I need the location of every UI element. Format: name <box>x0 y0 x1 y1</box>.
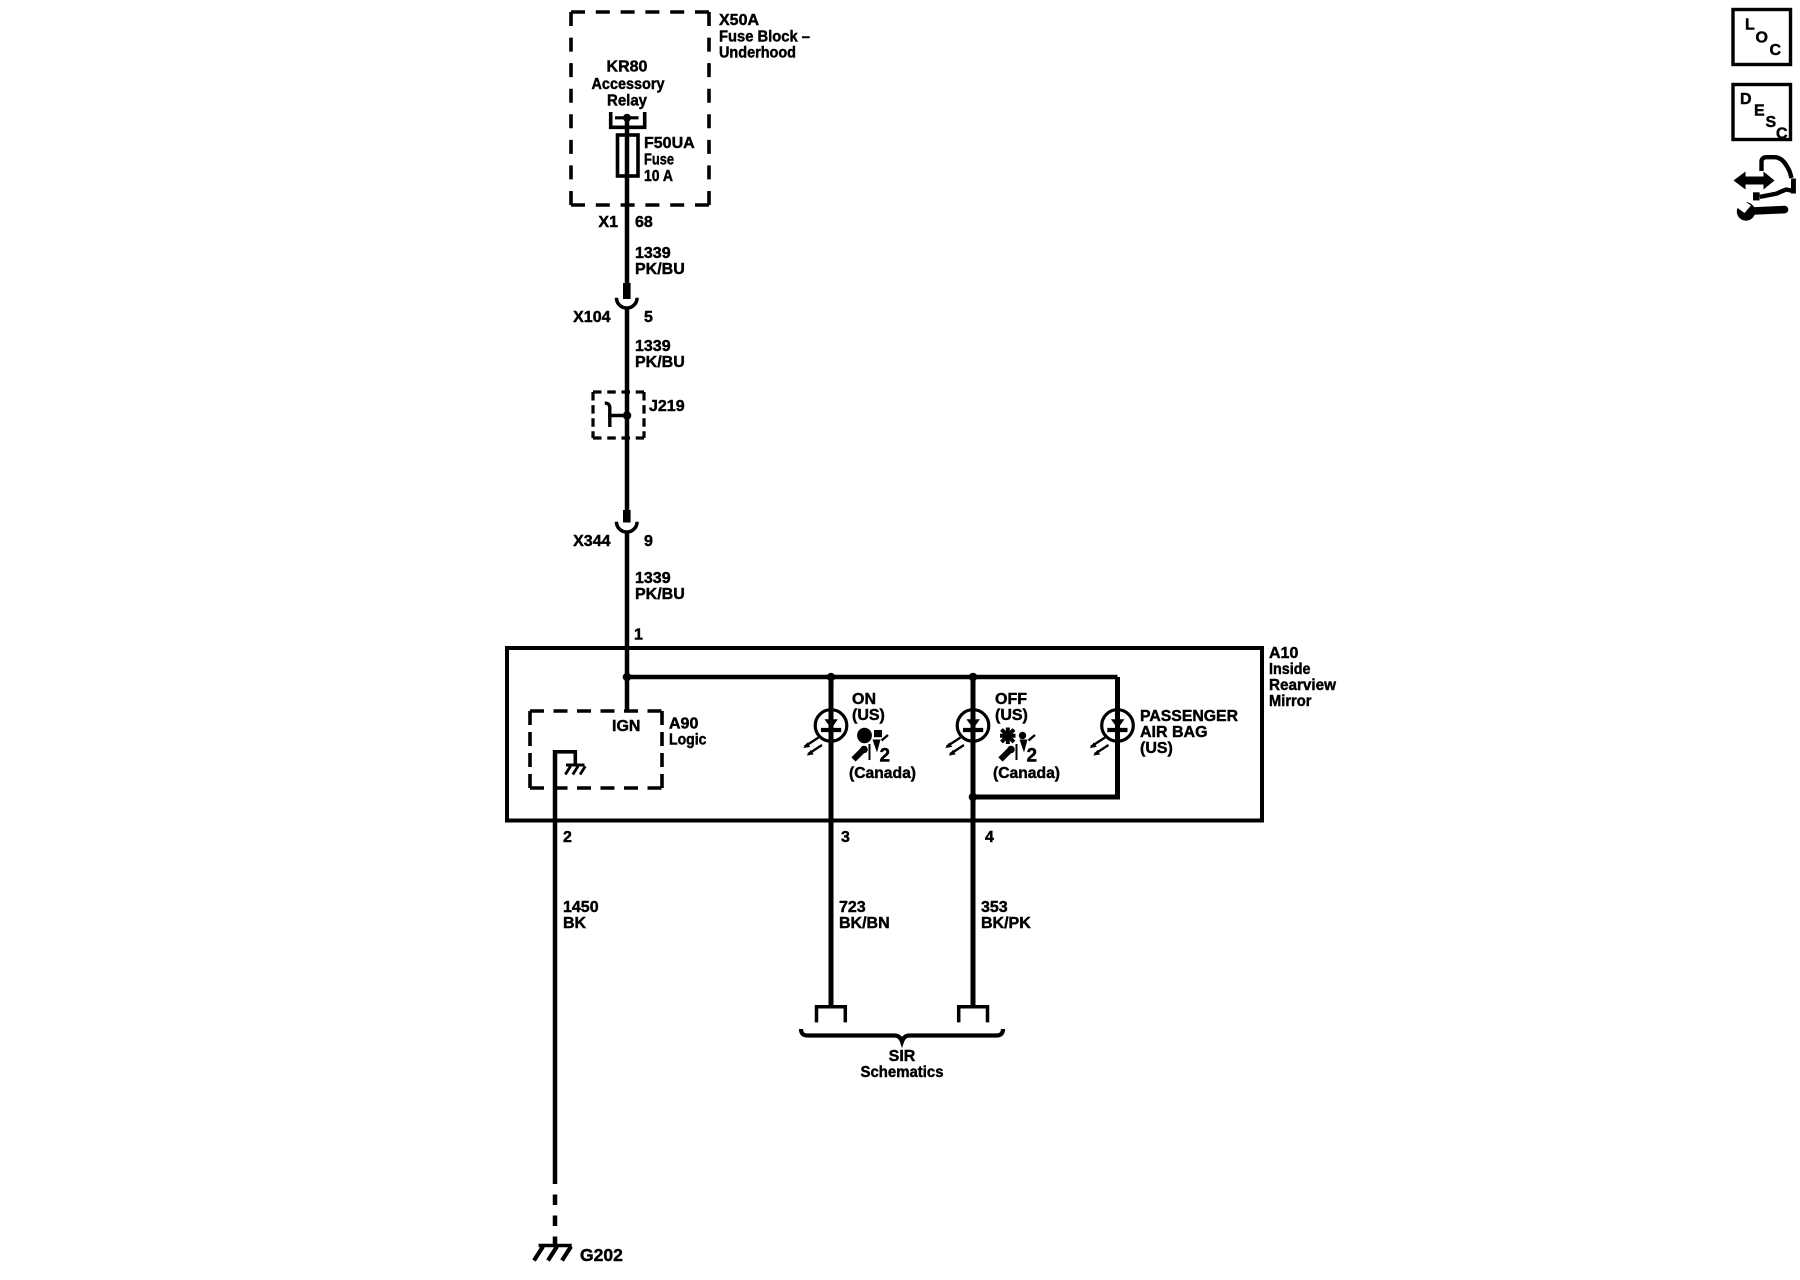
svg-text:(US): (US) <box>995 707 1028 724</box>
svg-text:E: E <box>1754 103 1765 120</box>
svg-text:Fuse: Fuse <box>644 152 674 169</box>
svg-text:5: 5 <box>644 309 653 326</box>
svg-text:X344: X344 <box>573 533 610 550</box>
svg-text:(Canada): (Canada) <box>849 765 916 782</box>
brace SIR schematics <box>801 1029 1003 1042</box>
svg-text:1339: 1339 <box>635 570 671 587</box>
A10 label <box>1269 645 1337 710</box>
node junction wire1/bus <box>623 673 632 682</box>
LED1 ON indicator <box>815 677 847 1005</box>
svg-text:723: 723 <box>839 899 866 916</box>
svg-text:D: D <box>1740 91 1752 108</box>
svg-text:KR80: KR80 <box>607 59 648 76</box>
connector X344 <box>616 510 637 532</box>
wire X104 to J219 <box>625 308 630 510</box>
pin X1 68 labels <box>598 214 652 231</box>
X104 pin 5 labels <box>573 309 653 326</box>
wire 353 BK/PK label <box>981 899 1031 932</box>
internal bus wire <box>627 675 1118 680</box>
wire 1339 PK/BU label (middle) <box>635 338 685 371</box>
svg-text:X50A: X50A <box>719 12 759 29</box>
splice J219 symbol <box>605 403 632 427</box>
dashed wire to G202 <box>553 1184 558 1246</box>
svg-text:C: C <box>1770 42 1782 59</box>
svg-text:O: O <box>1756 30 1768 47</box>
LED2 OFF indicator <box>957 677 989 1005</box>
relay KR80 contact symbol <box>611 112 645 127</box>
svg-text:BK: BK <box>563 915 587 932</box>
DESC icon box <box>1733 85 1791 143</box>
wire relay to fuse to X1 pin <box>625 118 630 283</box>
svg-text:Schematics: Schematics <box>861 1064 944 1081</box>
wire X344 to mirror box <box>625 532 630 677</box>
chassis ground symbol in A90 <box>565 765 585 775</box>
svg-text:A10: A10 <box>1269 645 1298 662</box>
KR80 relay label <box>592 59 665 110</box>
svg-text:1: 1 <box>634 627 643 644</box>
LED3 light arrows <box>1090 738 1109 756</box>
svg-text:F50UA: F50UA <box>644 135 695 152</box>
X50A label <box>719 12 810 62</box>
svg-text:IGN: IGN <box>612 718 640 735</box>
fuse F50UA symbol <box>618 135 639 176</box>
svg-text:Fuse Block –: Fuse Block – <box>719 28 810 45</box>
svg-text:PASSENGER: PASSENGER <box>1140 708 1238 725</box>
A90 label <box>669 716 707 749</box>
wire 1450 BK label <box>563 899 599 932</box>
svg-text:2: 2 <box>880 746 891 767</box>
svg-text:Underhood: Underhood <box>719 45 796 62</box>
SIR Schematics label <box>861 1048 944 1081</box>
wire 2 ground lead <box>553 750 558 1184</box>
airbag icon (ON) <box>854 728 889 760</box>
ON (US) label <box>852 691 885 724</box>
F50UA label <box>644 135 695 185</box>
svg-text:PK/BU: PK/BU <box>635 354 685 371</box>
fuse block X50A dashed box <box>571 12 709 205</box>
svg-text:Accessory: Accessory <box>592 76 665 93</box>
LOC icon box <box>1733 10 1791 65</box>
LED1 light arrows <box>803 738 822 756</box>
airbag icon (OFF) with burst <box>1000 728 1035 761</box>
navigation outline arrow icon <box>1753 157 1796 200</box>
node junction bus/LED1 <box>827 673 836 682</box>
svg-text:PK/BU: PK/BU <box>635 586 685 603</box>
svg-text:X1: X1 <box>598 214 618 231</box>
svg-text:Logic: Logic <box>669 732 707 749</box>
OFF (US) label <box>995 691 1028 724</box>
svg-text:1450: 1450 <box>563 899 599 916</box>
svg-text:2: 2 <box>563 829 572 846</box>
terminal symbol wire 4 <box>959 1007 988 1023</box>
wire 1339 PK/BU label (lower) <box>635 570 685 603</box>
svg-text:OFF: OFF <box>995 691 1027 708</box>
svg-text:Rearview: Rearview <box>1269 677 1337 694</box>
svg-text:(US): (US) <box>1140 740 1173 757</box>
A90 Logic dashed box <box>530 709 662 713</box>
connector X104 <box>616 283 637 308</box>
splice J219 dashed box <box>593 390 644 393</box>
svg-text:BK/BN: BK/BN <box>839 915 890 932</box>
A10 inside rearview mirror box <box>507 648 1262 821</box>
PASSENGER AIR BAG label <box>1140 708 1238 757</box>
internal ground wire in A90 <box>555 752 575 764</box>
wire 723 BK/BN label <box>839 899 890 932</box>
svg-text:L: L <box>1745 17 1755 34</box>
navigation double arrow icon <box>1734 172 1775 190</box>
svg-text:A90: A90 <box>669 716 698 733</box>
svg-text:S: S <box>1766 114 1777 131</box>
svg-text:J219: J219 <box>649 398 685 415</box>
svg-text:1339: 1339 <box>635 338 671 355</box>
svg-text:X104: X104 <box>573 309 610 326</box>
svg-text:G202: G202 <box>580 1245 623 1265</box>
svg-text:Inside: Inside <box>1269 661 1311 678</box>
svg-text:9: 9 <box>644 533 653 550</box>
wire bus to IGN <box>625 677 630 711</box>
svg-text:PK/BU: PK/BU <box>635 261 685 278</box>
svg-text:68: 68 <box>635 214 653 231</box>
LED2 light arrows <box>945 738 964 756</box>
svg-text:Mirror: Mirror <box>1269 693 1312 710</box>
ground G202 symbol <box>534 1246 572 1261</box>
LED3 passenger air bag indicator <box>973 677 1133 797</box>
node junction LED3/wire4 <box>969 793 978 802</box>
svg-text:BK/PK: BK/PK <box>981 915 1031 932</box>
svg-text:C: C <box>1776 126 1788 143</box>
svg-text:1339: 1339 <box>635 245 671 262</box>
svg-text:Relay: Relay <box>607 93 647 110</box>
svg-text:353: 353 <box>981 899 1008 916</box>
svg-text:(Canada): (Canada) <box>993 765 1060 782</box>
wire 1339 PK/BU label (upper) <box>635 245 685 278</box>
svg-text:SIR: SIR <box>889 1048 916 1065</box>
svg-text:4: 4 <box>985 829 994 846</box>
wrench icon <box>1736 200 1785 221</box>
X344 pin 9 labels <box>573 533 653 550</box>
svg-text:2: 2 <box>1027 746 1038 767</box>
terminal symbol wire 3 <box>817 1007 846 1023</box>
svg-text:10 A: 10 A <box>644 168 673 185</box>
svg-text:AIR BAG: AIR BAG <box>1140 724 1208 741</box>
node junction bus/LED2 <box>969 673 978 682</box>
svg-text:ON: ON <box>852 691 876 708</box>
svg-text:(US): (US) <box>852 707 885 724</box>
svg-text:3: 3 <box>841 829 850 846</box>
